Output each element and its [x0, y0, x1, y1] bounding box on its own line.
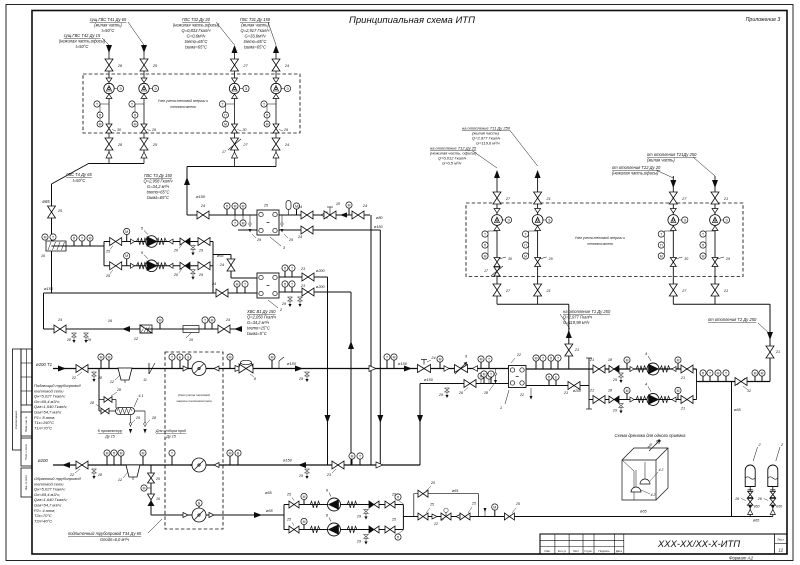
- balancing valve 29: [273, 124, 279, 133]
- svg-text:29: 29: [288, 238, 293, 242]
- svg-text:Т: Т: [96, 102, 98, 106]
- drain 29: [298, 297, 303, 301]
- valve 21: [766, 346, 774, 358]
- sensor М: [535, 361, 537, 369]
- pipe pump line: [104, 265, 213, 267]
- pipe heating branch x=673.3: [672, 176, 674, 304]
- heat exchanger 2 (ГВС I ступень): [257, 273, 279, 298]
- reducer: [141, 152, 147, 158]
- svg-text:24: 24: [57, 318, 62, 322]
- flow arrow down: [417, 415, 423, 423]
- svg-text:ø150: ø150: [196, 194, 206, 199]
- valve 25: [418, 513, 428, 520]
- impulse line to calculator: [114, 88, 117, 90]
- pressure sensor П: [482, 242, 488, 248]
- drain 29: [364, 510, 369, 514]
- svg-text:М: М: [393, 355, 396, 359]
- valve 24: [272, 59, 280, 71]
- svg-text:16: 16: [41, 254, 45, 258]
- svg-text:25: 25: [105, 274, 111, 278]
- svg-text:t=50°C: t=50°C: [76, 44, 89, 49]
- valve 27 lower: [669, 284, 677, 296]
- sensor М: [106, 456, 108, 465]
- sensor М: [351, 459, 353, 465]
- temperature sensor Т: [529, 230, 538, 232]
- pump 6: [328, 523, 341, 536]
- svg-text:ø65: ø65: [266, 508, 274, 513]
- check valve: [376, 462, 383, 468]
- svg-text:tзима=65°C: tзима=65°C: [244, 45, 266, 50]
- svg-text:М: М: [120, 451, 123, 455]
- svg-text:4.2: 4.2: [659, 468, 664, 472]
- svg-text:29: 29: [356, 540, 361, 544]
- sensor Т: [291, 287, 293, 292]
- valve 26: [747, 498, 753, 505]
- svg-text:29: 29: [256, 238, 261, 242]
- svg-text:Подающий трубопровод: Подающий трубопровод: [34, 383, 81, 388]
- svg-text:(нежилая часть,офисы): (нежилая часть,офисы): [612, 171, 659, 176]
- balancing valve 11: [735, 378, 747, 386]
- pipe HX-1 primary return y=383.5: [420, 383, 509, 385]
- pipe riser Т4 x=51.5: [51, 184, 53, 293]
- drain triangle: [770, 510, 775, 515]
- reducer: [494, 209, 500, 214]
- flow meter (подпитка): [183, 513, 188, 518]
- pipe riser ХВС x=43.5: [43, 293, 45, 329]
- three-way valve 8: [239, 364, 253, 373]
- svg-text:М: М: [229, 451, 232, 455]
- svg-text:Т: Т: [709, 371, 711, 375]
- svg-text:28: 28: [117, 143, 123, 147]
- svg-text:М: М: [483, 372, 486, 376]
- svg-text:23: 23: [326, 473, 332, 477]
- sensor П: [113, 456, 115, 465]
- svg-text:Т: Т: [81, 236, 83, 240]
- svg-text:Кол.уч: Кол.уч: [558, 549, 567, 553]
- balancing valve 30: [670, 258, 676, 267]
- pipe ХВС В1 y=329: [44, 328, 241, 330]
- svg-text:ø65: ø65: [753, 519, 760, 523]
- svg-text:23: 23: [300, 267, 306, 271]
- drain 29: [619, 373, 624, 377]
- svg-text:25: 25: [471, 502, 476, 506]
- svg-text:М: М: [108, 355, 111, 359]
- reducer: [169, 239, 173, 244]
- svg-text:ø150: ø150: [374, 225, 384, 229]
- vibration insert: [310, 526, 320, 533]
- reducer: [106, 94, 112, 99]
- heat exchanger 3 (ГВС II ступень): [257, 210, 279, 235]
- svg-text:25: 25: [263, 204, 268, 208]
- svg-text:4.2: 4.2: [651, 493, 656, 497]
- svg-text:28: 28: [97, 473, 102, 477]
- svg-text:G=34,2 м³/ч: G=34,2 м³/ч: [247, 320, 270, 325]
- pipe ГВС branch x=234.5: [234, 49, 236, 167]
- svg-text:G=0,6м³/ч: G=0,6м³/ч: [187, 34, 207, 39]
- flow arrow: [535, 170, 541, 178]
- sensor М: [480, 362, 482, 368]
- svg-text:ø80: ø80: [376, 216, 383, 220]
- pipe HX-A cold y=230: [279, 229, 380, 231]
- pump header right: [402, 505, 404, 530]
- sensor М: [296, 209, 298, 215]
- flow arrow: [494, 170, 500, 178]
- temperature sensor T: [226, 103, 235, 105]
- sensor М: [108, 360, 110, 368]
- sensor Т: [232, 220, 238, 226]
- drain 28: [92, 372, 97, 376]
- svg-text:tлето=65°C: tлето=65°C: [185, 39, 208, 44]
- svg-text:30: 30: [243, 128, 247, 132]
- svg-text:теплоносителя: теплоносителя: [170, 105, 196, 109]
- flow arrow: [254, 512, 262, 518]
- pressure sensor M: [97, 121, 103, 127]
- sensor М: [126, 259, 128, 266]
- pressure sensor P: [266, 104, 268, 112]
- sensor М: [303, 500, 305, 505]
- svg-text:(нежилая часть,офисы): (нежилая часть,офисы): [173, 23, 220, 28]
- svg-text:25: 25: [57, 209, 63, 213]
- sensor П: [548, 380, 550, 385]
- svg-text:М: М: [493, 505, 496, 509]
- valve 24: [54, 325, 66, 333]
- svg-text:(жилая часть): (жилая часть): [647, 158, 675, 163]
- svg-text:ø200: ø200: [38, 458, 48, 463]
- pipe diagonal Т4: [52, 164, 89, 185]
- svg-text:T2л=40°C: T2л=40°C: [34, 518, 52, 523]
- expansion tank 2: [768, 465, 778, 487]
- svg-text:Т: Т: [525, 232, 527, 236]
- valve 27: [669, 192, 677, 204]
- svg-text:М: М: [702, 254, 705, 258]
- svg-text:20: 20: [173, 273, 179, 277]
- check valve: [456, 514, 461, 519]
- svg-text:ø150: ø150: [398, 361, 408, 366]
- sensor П: [395, 534, 401, 540]
- sensor М: [478, 373, 484, 379]
- sensor М: [211, 323, 213, 329]
- pipe riser x=380.3: [379, 230, 381, 465]
- check valve 20: [180, 262, 185, 269]
- svg-text:Т: Т: [488, 357, 490, 361]
- drain 28: [495, 369, 497, 381]
- svg-text:от отопления Т2 Ду 250: от отопления Т2 Ду 250: [708, 317, 757, 322]
- svg-text:29: 29: [725, 257, 730, 261]
- check valve 20: [180, 238, 185, 245]
- valve 21: [711, 192, 719, 204]
- pipe ГВС branch x=144: [143, 49, 145, 164]
- reducer: [232, 94, 238, 99]
- svg-text:Т: Т: [725, 371, 727, 375]
- flow meter (return): [190, 463, 195, 468]
- svg-text:25: 25: [155, 477, 160, 481]
- pipe branch to sampling cooler x=99: [98, 369, 100, 412]
- sensor М: [100, 360, 102, 368]
- drain 29: [445, 388, 450, 392]
- sensor М: [242, 209, 244, 215]
- check valve: [369, 366, 376, 372]
- svg-text:М: М: [303, 520, 306, 524]
- pipe riser Ø65 x=731.5: [731, 382, 733, 517]
- pipe cooler drain 1: [130, 415, 132, 428]
- impulse line to calculator: [240, 88, 243, 90]
- flow arrow: [273, 45, 279, 53]
- impulse line: [679, 219, 682, 221]
- flow arrow down: [325, 415, 331, 423]
- svg-text:21: 21: [723, 197, 728, 201]
- sensor Т: [359, 459, 361, 465]
- svg-text:М: М: [44, 235, 47, 239]
- heat meter flow transducer: [710, 215, 721, 226]
- sensor М: [494, 510, 496, 516]
- valve 24: [227, 259, 235, 271]
- pipe supply main Т1: [53, 368, 509, 370]
- sensor М: [42, 234, 48, 240]
- svg-text:М: М: [242, 204, 245, 208]
- drain 22: [530, 388, 532, 396]
- svg-text:20: 20: [173, 249, 179, 253]
- title block frame: [540, 534, 787, 554]
- flow arrow: [62, 462, 70, 468]
- svg-text:27: 27: [242, 143, 248, 147]
- svg-text:Т: Т: [386, 355, 388, 359]
- calculator Э: [284, 85, 290, 91]
- svg-text:Т: Т: [542, 356, 544, 360]
- svg-text:М: М: [754, 371, 757, 375]
- svg-text:Узел учета тепловой энергии и: Узел учета тепловой энергии и: [158, 99, 208, 103]
- svg-text:М: М: [100, 355, 103, 359]
- pipe collector Т2 y=304.3: [673, 303, 770, 305]
- device 16 (orifice): [46, 241, 66, 251]
- sensor М: [236, 287, 238, 293]
- sensor М: [626, 394, 628, 400]
- pressure sensor П: [700, 242, 706, 248]
- svg-text:ø200: ø200: [316, 285, 326, 289]
- pipe cooler drain 2: [135, 410, 146, 412]
- pipe riser to HX-B top x=231: [213, 254, 231, 256]
- strainer 12: [118, 368, 132, 380]
- pipe heating branch x=497: [496, 178, 498, 304]
- svg-text:Для отбора проб: Для отбора проб: [155, 429, 187, 433]
- valve 25: [385, 526, 395, 533]
- balancing valve 30: [494, 258, 500, 267]
- valve 25: [148, 473, 155, 483]
- sensor П: [284, 271, 286, 277]
- sensor Т: [244, 287, 246, 293]
- check valve: [374, 501, 379, 508]
- svg-text:21: 21: [589, 389, 594, 393]
- pressure sensor М: [700, 253, 706, 259]
- svg-text:24: 24: [211, 282, 216, 286]
- pipe riser x=351: [350, 292, 352, 465]
- check valve: [444, 366, 449, 372]
- svg-text:t=50°C: t=50°C: [102, 28, 115, 33]
- pump 5: [146, 236, 158, 248]
- regulator 17 on H1: [494, 267, 500, 276]
- svg-text:М: М: [242, 221, 245, 225]
- svg-text:Лист: Лист: [777, 538, 784, 542]
- strainer 12: [140, 325, 152, 333]
- valve 25 (bypass): [418, 490, 428, 497]
- sensor Т: [291, 271, 293, 277]
- reducer: [670, 209, 676, 214]
- svg-text:25: 25: [429, 503, 434, 507]
- reducer: [535, 226, 541, 231]
- svg-text:21: 21: [545, 197, 550, 201]
- check valve: [374, 526, 379, 533]
- valve 25 lower: [140, 138, 148, 150]
- svg-text:12: 12: [778, 548, 783, 553]
- pump suction header: [588, 358, 590, 409]
- svg-text:Т: Т: [263, 102, 265, 106]
- flow arrow up: [184, 177, 190, 185]
- sensor М: [141, 485, 147, 491]
- svg-text:Q=0,833 Гкал/ч: Q=0,833 Гкал/ч: [182, 28, 212, 33]
- drain 29: [84, 333, 89, 337]
- svg-text:М: М: [484, 254, 487, 258]
- sensor Т: [490, 377, 492, 383]
- svg-text:М: М: [660, 254, 663, 258]
- pipe secondary return y=385.5: [526, 385, 589, 387]
- flow meter (supply): [183, 366, 188, 371]
- svg-text:тепловой сети: тепловой сети: [34, 388, 64, 393]
- balancing valve 30: [232, 124, 238, 133]
- svg-text:Ду 15: Ду 15: [104, 435, 116, 439]
- svg-text:27: 27: [681, 289, 687, 293]
- vibration insert: [660, 396, 670, 403]
- pressure regulator 22: [441, 513, 451, 520]
- svg-text:Согласовано: Согласовано: [14, 411, 18, 430]
- pressure sensor М: [658, 253, 664, 259]
- reducer: [672, 367, 676, 372]
- reducer: [712, 209, 718, 214]
- sensor В: [237, 456, 239, 465]
- svg-text:30: 30: [684, 257, 688, 261]
- sensor М: [89, 241, 91, 246]
- svg-text:ø65: ø65: [217, 254, 224, 258]
- pipe HX-A hot out y=215: [279, 214, 370, 216]
- svg-text:Q=2,917 Гкал/ч: Q=2,917 Гкал/ч: [241, 28, 271, 33]
- svg-text:21: 21: [545, 289, 550, 293]
- flow arrow: [670, 180, 676, 188]
- svg-text:24: 24: [284, 64, 289, 68]
- svg-text:Взам. инв. №: Взам. инв. №: [25, 416, 28, 432]
- svg-text:М: М: [229, 355, 232, 359]
- svg-text:Т: Т: [131, 102, 133, 106]
- sensor М: [761, 376, 763, 381]
- svg-text:Подпись: Подпись: [598, 549, 610, 553]
- sensor Т: [50, 234, 56, 240]
- bypass loop Ø65: [414, 494, 479, 517]
- pipe ХВС to HX-B y=293: [44, 292, 258, 294]
- svg-text:T1з=150°C: T1з=150°C: [34, 420, 54, 425]
- svg-text:ø150: ø150: [424, 377, 434, 382]
- svg-text:ø65: ø65: [640, 509, 648, 514]
- svg-text:ø50: ø50: [776, 505, 782, 509]
- valve 24: [218, 325, 230, 333]
- svg-text:М: М: [159, 318, 162, 322]
- sensor М: [303, 525, 305, 530]
- metering unit box DB2 (отопление): [466, 203, 743, 277]
- svg-text:29: 29: [438, 393, 443, 397]
- valve 25 (Т4 riser): [48, 206, 56, 218]
- temperature sensor Т: [706, 230, 715, 232]
- svg-text:ø150: ø150: [44, 286, 54, 291]
- metering unit box DB3 (тепловая сеть): [165, 352, 223, 529]
- vibration insert: [137, 238, 147, 245]
- pipe pump line: [104, 241, 213, 243]
- pipe ГВС branch x=276: [275, 49, 277, 167]
- air vent: [288, 209, 290, 215]
- svg-text:от отопления Т22 Ду 20: от отопления Т22 Ду 20: [612, 165, 661, 170]
- sensor Е: [555, 380, 557, 385]
- reducer: [630, 397, 634, 402]
- svg-text:25: 25: [152, 143, 158, 147]
- pipe to cooler: [99, 410, 116, 412]
- sensor М: [142, 456, 144, 465]
- pipe heating branch x=715: [714, 176, 716, 304]
- balancing valve 29: [141, 124, 147, 133]
- reducer: [494, 226, 500, 231]
- reducer: [273, 78, 279, 83]
- svg-text:М: М: [266, 122, 269, 126]
- pipe Т2 return y=381.5: [697, 381, 771, 383]
- svg-text:ø150: ø150: [287, 361, 297, 366]
- control valve 10: [324, 211, 336, 219]
- pump 5: [146, 260, 158, 272]
- svg-text:25: 25: [515, 502, 520, 506]
- svg-text:29: 29: [356, 515, 361, 519]
- sensor М: [126, 235, 128, 242]
- vibration insert: [157, 262, 167, 269]
- svg-text:М: М: [677, 358, 680, 362]
- drain 29 (HX-A right): [281, 215, 283, 227]
- svg-text:тепловой сети: тепловой сети: [34, 481, 64, 486]
- reducer: [273, 94, 279, 99]
- valve 25: [110, 238, 122, 246]
- svg-text:ХХХ-ХХ/ХХ-Х-ИТП: ХХХ-ХХ/ХХ-Х-ИТП: [657, 539, 740, 550]
- svg-text:26: 26: [757, 497, 762, 501]
- svg-text:подпиточный трубопровод Т34 Ду: подпиточный трубопровод Т34 Ду 65: [68, 531, 142, 536]
- svg-text:30: 30: [508, 257, 512, 261]
- sensor Т: [486, 373, 492, 379]
- pipe Т3 to HX-A: [187, 214, 257, 216]
- vibration insert: [636, 396, 646, 403]
- valve 21: [534, 192, 542, 204]
- flow arrow: [404, 366, 412, 372]
- valve 21: [593, 396, 605, 404]
- svg-text:М: М: [125, 230, 128, 234]
- valve 25: [289, 526, 299, 533]
- svg-text:26: 26: [734, 497, 739, 501]
- regulator 17 on B3: [228, 139, 241, 150]
- svg-text:29: 29: [151, 128, 156, 132]
- sump pump 4.2 (first): [631, 487, 641, 492]
- calculator Э: [117, 85, 123, 91]
- metering unit box DB1 (ГВС): [83, 74, 300, 133]
- valve 27 lower: [493, 284, 501, 296]
- heat meter flow transducer: [139, 83, 149, 93]
- svg-text:(жилая часть): (жилая часть): [241, 23, 269, 28]
- svg-text:Qгв=1,640 Гкал/ч;: Qгв=1,640 Гкал/ч;: [34, 404, 67, 409]
- pipe pump line: [284, 504, 403, 506]
- svg-text:29: 29: [298, 474, 303, 478]
- valve 23: [332, 461, 344, 469]
- drain 29: [191, 246, 196, 250]
- reducer: [141, 94, 147, 99]
- device 11: [148, 363, 150, 374]
- valve 27 lower: [231, 138, 239, 150]
